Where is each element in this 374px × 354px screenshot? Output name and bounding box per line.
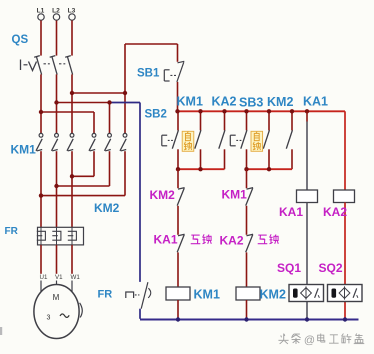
svg-text:KA1: KA1	[279, 205, 303, 219]
svg-text:M: M	[53, 293, 60, 302]
svg-text:SB2: SB2	[145, 109, 167, 121]
svg-text:U1: U1	[40, 274, 48, 281]
svg-text:SB1: SB1	[137, 68, 160, 80]
svg-text:SB3: SB3	[239, 95, 263, 109]
svg-text:KM1: KM1	[11, 143, 37, 157]
svg-text:KM1: KM1	[177, 94, 203, 108]
svg-text:KA1: KA1	[154, 233, 178, 247]
svg-text:@: @	[304, 335, 315, 347]
svg-text:KA2: KA2	[323, 205, 347, 219]
svg-text:KA2: KA2	[220, 234, 244, 248]
svg-text:SQ2: SQ2	[319, 261, 343, 275]
svg-text:SQ1: SQ1	[277, 261, 301, 275]
svg-text:QS: QS	[12, 34, 29, 46]
svg-text:3: 3	[47, 315, 51, 322]
svg-text:KA2: KA2	[212, 94, 237, 108]
svg-text:KA1: KA1	[303, 94, 328, 108]
svg-text:W1: W1	[71, 274, 81, 281]
svg-text:KM1: KM1	[194, 288, 220, 302]
svg-text:FR: FR	[98, 289, 113, 301]
svg-text:KM2: KM2	[150, 188, 176, 202]
svg-text:KM2: KM2	[260, 288, 286, 302]
svg-text:KM2: KM2	[267, 95, 293, 109]
svg-text:FR: FR	[5, 226, 19, 237]
svg-text:KM2: KM2	[94, 201, 120, 215]
svg-text:KM1: KM1	[222, 188, 248, 202]
svg-text:V1: V1	[55, 274, 63, 281]
